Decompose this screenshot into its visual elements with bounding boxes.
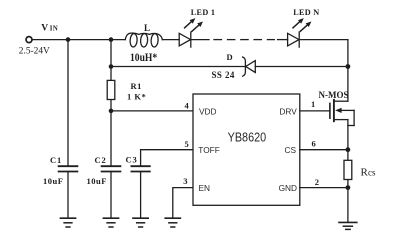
svg-text:10uH*: 10uH* xyxy=(130,50,157,64)
wire R1 branch from VIN down xyxy=(110,40,112,167)
svg-text:C2: C2 xyxy=(95,155,107,165)
svg-text:GND: GND xyxy=(279,183,297,193)
node junction R1-top diode-D xyxy=(109,64,114,69)
node junction VIN-C1 xyxy=(66,37,71,42)
wire LED1 cathode xyxy=(191,39,209,41)
resistor R1 xyxy=(107,80,115,99)
wire Rcs to ground xyxy=(347,188,349,223)
svg-text:L: L xyxy=(144,23,150,33)
svg-text:3: 3 xyxy=(183,176,187,186)
svg-text:YB8620: YB8620 xyxy=(228,129,267,144)
svg-text:N-MOS: N-MOS xyxy=(319,90,349,100)
wire to LED N xyxy=(278,39,288,41)
wire EN pin3 to ground xyxy=(173,188,193,219)
op-amp U1 YB8620 IC body xyxy=(193,94,300,205)
resistor Rcs xyxy=(344,150,352,188)
svg-text:1: 1 xyxy=(311,99,315,109)
ground EN xyxy=(165,218,180,227)
svg-text:5: 5 xyxy=(185,139,189,149)
wire C1 branch xyxy=(67,40,69,167)
label VIN xyxy=(41,24,58,34)
capacitor C2 xyxy=(102,166,121,171)
LED DN (LED N) xyxy=(288,18,312,47)
svg-text:2.5-24V: 2.5-24V xyxy=(19,46,51,56)
svg-text:LED N: LED N xyxy=(293,8,319,17)
svg-text:EN: EN xyxy=(199,183,211,193)
wire VDD pin4 xyxy=(111,110,193,112)
LED D1 (LED 1) xyxy=(179,18,203,47)
wire MOSFET source down xyxy=(347,120,349,150)
svg-text:4: 4 xyxy=(185,100,190,110)
svg-text:R1: R1 xyxy=(131,81,142,91)
svg-text:2: 2 xyxy=(315,177,319,187)
svg-text:TOFF: TOFF xyxy=(198,145,220,155)
svg-text:cs: cs xyxy=(368,167,376,177)
svg-text:D: D xyxy=(227,52,233,62)
wire diode D left segment xyxy=(111,66,245,68)
label Rcs xyxy=(361,166,376,178)
node VIN input terminal xyxy=(26,37,32,43)
svg-text:IN: IN xyxy=(50,25,58,32)
wire diode D right segment xyxy=(255,66,348,68)
svg-text:V: V xyxy=(41,24,48,34)
svg-text:6: 6 xyxy=(312,139,316,149)
capacitor C1 xyxy=(59,166,78,171)
svg-text:CS: CS xyxy=(285,145,297,155)
node junction GND-Rcs xyxy=(346,185,351,190)
wire inductor to LED1 xyxy=(162,39,179,41)
node junction VDD-C2 xyxy=(109,109,114,114)
svg-text:10uF: 10uF xyxy=(43,176,63,186)
wire C2 to ground xyxy=(110,172,112,219)
wire right rail down to MOSFET drain xyxy=(347,40,349,102)
wire VIN top rail xyxy=(32,39,125,41)
transistor Q1 N-MOS xyxy=(330,100,354,126)
inductor L coil xyxy=(125,33,162,40)
diode D SS24 schottky xyxy=(243,57,256,76)
node junction CS-Rcs xyxy=(346,147,351,152)
wire C1 to ground xyxy=(67,172,69,219)
svg-text:10uF: 10uF xyxy=(87,176,107,186)
svg-text:DRV: DRV xyxy=(279,106,297,116)
svg-text:C1: C1 xyxy=(50,155,62,165)
svg-text:LED 1: LED 1 xyxy=(191,8,215,17)
svg-text:1 K*: 1 K* xyxy=(127,91,146,101)
svg-text:SS 24: SS 24 xyxy=(212,70,235,80)
wire GND pin2 xyxy=(300,187,348,189)
ground C2 xyxy=(103,218,118,227)
ground C1 xyxy=(60,218,75,227)
svg-text:VDD: VDD xyxy=(199,106,217,116)
wire dashed LED string xyxy=(214,39,274,41)
svg-text:C3: C3 xyxy=(126,154,138,164)
wire C3 to ground xyxy=(140,172,142,219)
ground main xyxy=(339,222,357,229)
capacitor C3 xyxy=(131,166,149,171)
node junction diode-D drain rail xyxy=(346,64,351,69)
wire LED N to right rail xyxy=(299,39,348,41)
ground C3 xyxy=(133,218,148,227)
wire TOFF pin5 to C3 xyxy=(141,150,193,167)
wire DRV pin1 to gate xyxy=(300,110,330,112)
node junction VIN-R1 xyxy=(109,37,114,42)
wire CS pin6 xyxy=(300,149,348,151)
